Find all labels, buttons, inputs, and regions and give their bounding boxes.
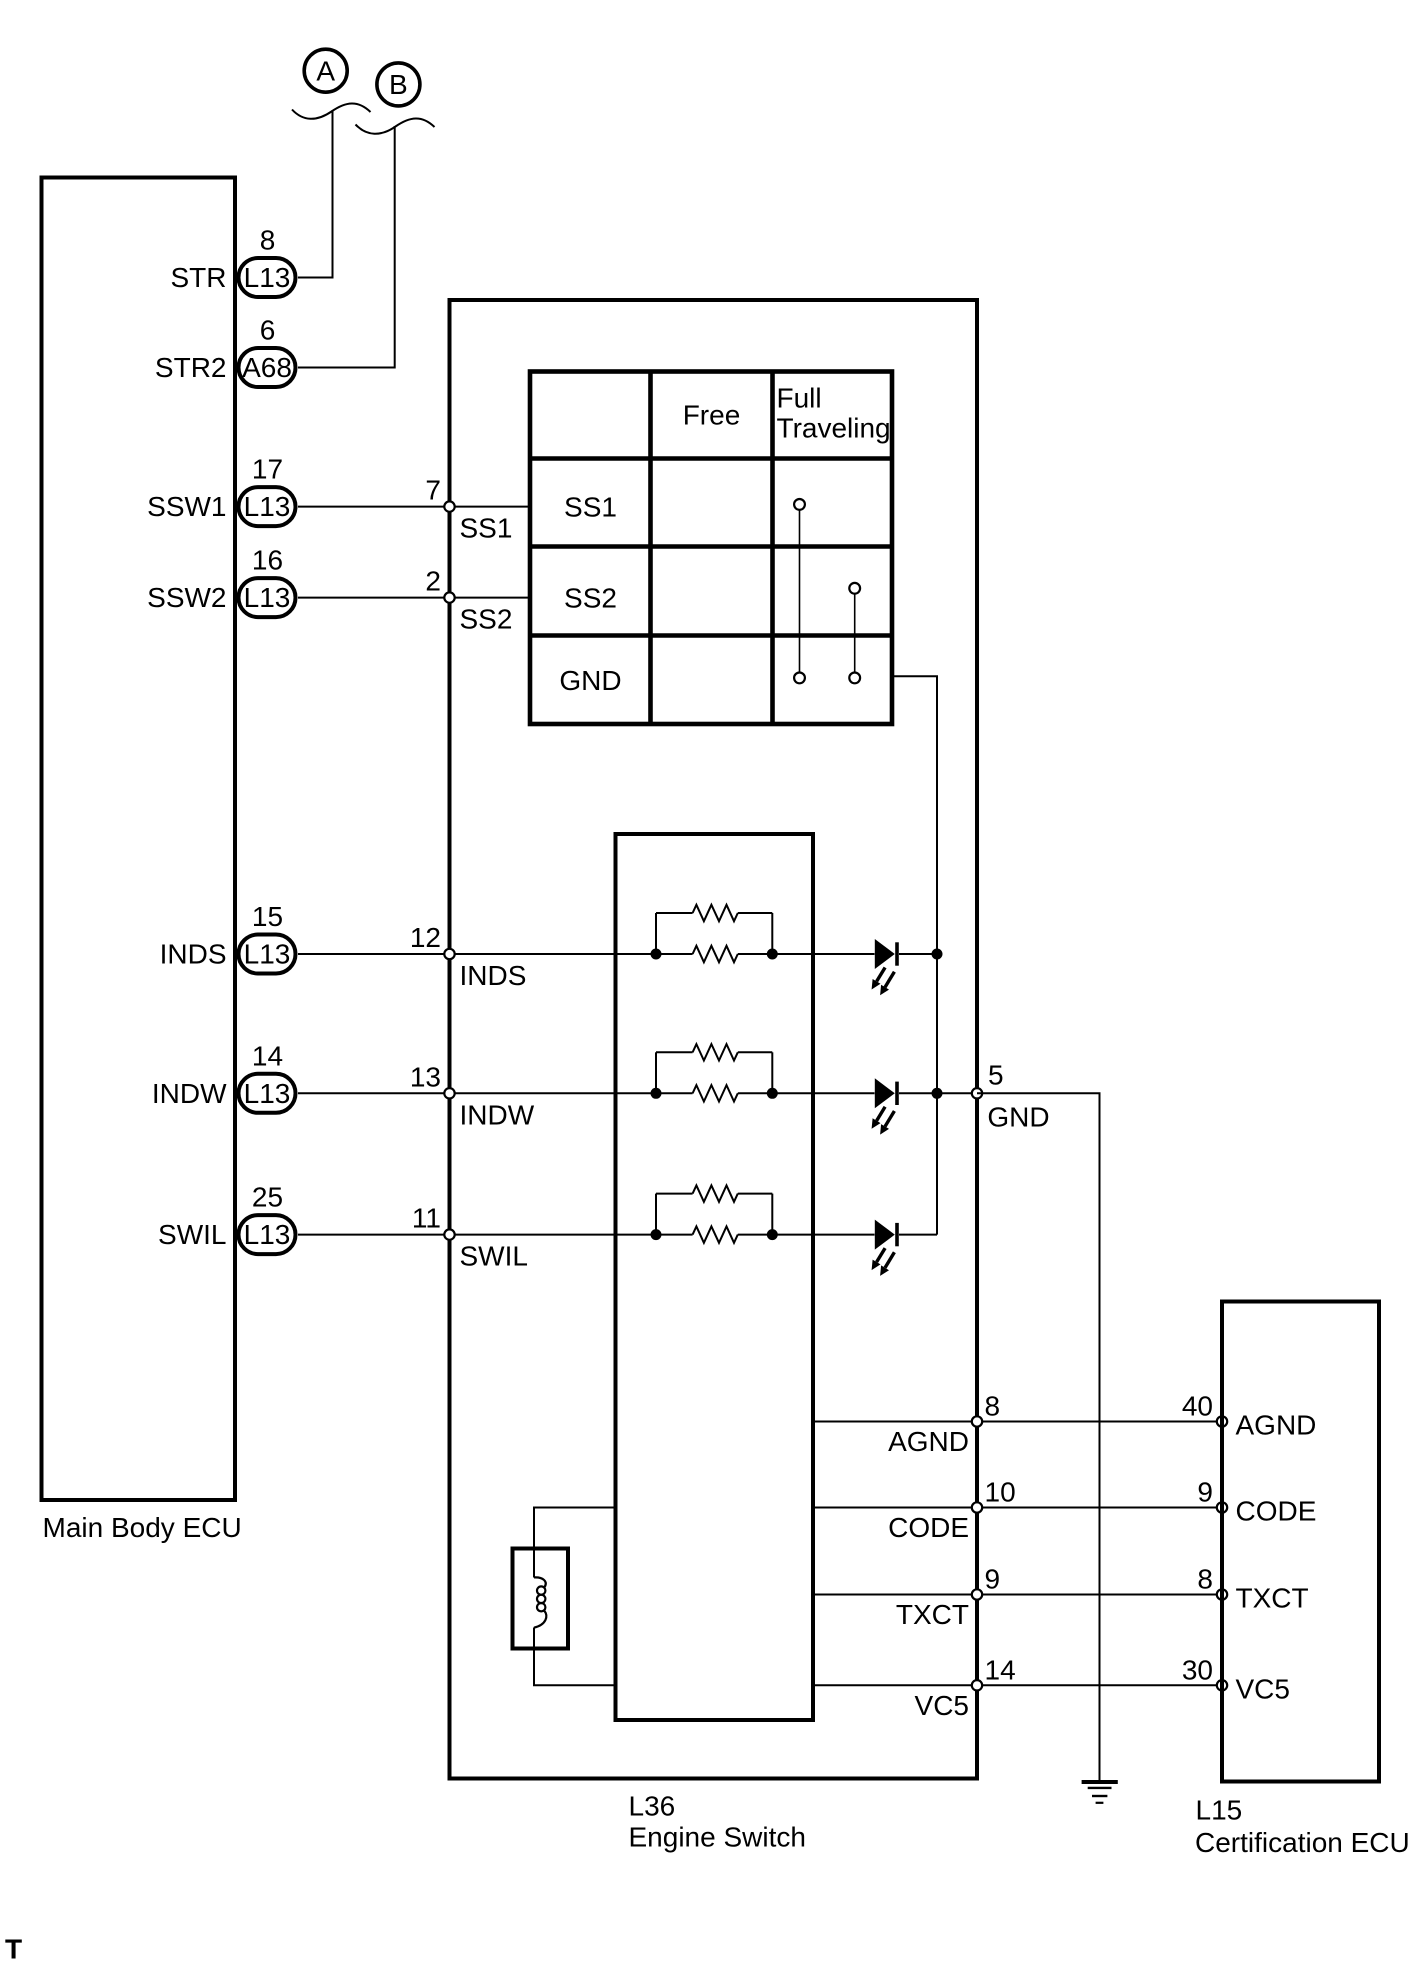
svg-text:TXCT: TXCT	[1236, 1583, 1309, 1614]
svg-text:L13: L13	[244, 1219, 291, 1250]
svg-text:A68: A68	[242, 352, 292, 383]
switch contact SS2 full-traveling	[849, 583, 860, 594]
wire INDW LED to bus	[899, 1092, 937, 1094]
svg-text:8: 8	[985, 1391, 1001, 1422]
svg-text:25: 25	[252, 1182, 283, 1213]
Main Body ECU box	[42, 178, 236, 1501]
svg-text:9: 9	[1197, 1477, 1213, 1508]
svg-text:SS1: SS1	[564, 492, 617, 523]
svg-text:14: 14	[985, 1654, 1016, 1685]
break symbol B	[356, 118, 435, 133]
ECU pin INDS connector L13	[160, 901, 296, 974]
svg-text:VC5: VC5	[1236, 1673, 1290, 1704]
wire coil top to block (CODE)	[534, 1508, 616, 1578]
node INDS pin 12 on L36	[410, 922, 527, 991]
svg-text:8: 8	[260, 225, 276, 256]
break symbol A	[292, 103, 371, 118]
node TXCT pin 8 on L15	[1197, 1564, 1308, 1614]
wire GND to earth	[977, 1093, 1100, 1781]
LED INDW	[872, 1078, 897, 1134]
wire INDW row to LED	[738, 1092, 875, 1094]
svg-text:9: 9	[985, 1564, 1001, 1595]
ground symbol	[1082, 1782, 1118, 1803]
junction dot INDS left	[651, 949, 662, 960]
svg-text:L36: L36	[629, 1791, 676, 1822]
node CODE pin 10 on L36	[888, 1477, 1016, 1544]
junction dot INDW left	[651, 1088, 662, 1099]
wire INDS row to LED	[738, 953, 875, 955]
svg-text:2: 2	[425, 566, 441, 597]
svg-text:SWIL: SWIL	[158, 1219, 226, 1250]
svg-text:17: 17	[252, 454, 283, 485]
wire CODE	[813, 1507, 1222, 1509]
junction dot bus INDS	[932, 949, 943, 960]
svg-text:Free: Free	[683, 400, 741, 431]
svg-text:Certification ECU: Certification ECU	[1195, 1827, 1410, 1858]
LED SWIL	[872, 1220, 897, 1276]
svg-text:8: 8	[1197, 1564, 1213, 1595]
junction dot INDW right	[767, 1088, 778, 1099]
resistor SWIL lower	[693, 1226, 738, 1242]
wire SSW2 to SS2	[298, 597, 530, 599]
switch state table	[530, 372, 892, 725]
svg-text:6: 6	[260, 315, 276, 346]
svg-text:Full: Full	[777, 383, 822, 414]
junction dot SWIL right	[767, 1229, 778, 1240]
node GND pin 5 on L36	[972, 1059, 1050, 1132]
wire INDW to GND node	[937, 1092, 977, 1094]
resistor INDW lower	[693, 1085, 738, 1101]
ECU pin SSW2 connector L13	[147, 545, 295, 618]
wire SWIL LED to bus	[899, 1234, 937, 1236]
svg-text:A: A	[316, 55, 335, 86]
node CODE pin 9 on L15	[1197, 1477, 1316, 1527]
svg-text:10: 10	[985, 1477, 1016, 1508]
junction dot SWIL left	[651, 1229, 662, 1240]
node SS1 pin 7 on L36	[425, 475, 512, 544]
key cylinder box	[513, 1549, 569, 1649]
node VC5 pin 30 on L15	[1182, 1654, 1290, 1704]
resistor INDS upper (parallel)	[656, 905, 772, 954]
node TXCT pin 9 on L36	[896, 1564, 1000, 1631]
svg-text:INDS: INDS	[460, 960, 527, 991]
junction dot bus INDW	[932, 1088, 943, 1099]
svg-text:GND: GND	[987, 1101, 1049, 1132]
L36 Engine Switch box	[450, 300, 978, 1779]
wire SSW1 to SS1	[298, 506, 530, 508]
svg-text:INDW: INDW	[152, 1078, 227, 1109]
connector A circle	[304, 49, 347, 92]
svg-text:16: 16	[252, 545, 283, 576]
svg-text:SS2: SS2	[460, 604, 513, 635]
node SWIL pin 11 on L36	[412, 1203, 528, 1272]
wire STR to A	[298, 110, 333, 278]
engine switch internal block	[616, 834, 814, 1720]
wire STR2 to B	[298, 126, 395, 368]
switch contact GND full-traveling right	[849, 673, 860, 684]
svg-text:30: 30	[1182, 1654, 1213, 1685]
svg-text:L13: L13	[244, 582, 291, 613]
svg-text:B: B	[389, 69, 408, 100]
wire SWIL row	[298, 1234, 693, 1236]
svg-text:SWIL: SWIL	[460, 1241, 528, 1272]
wire table GND output to bus	[892, 676, 937, 1234]
svg-text:Main Body ECU: Main Body ECU	[43, 1512, 242, 1543]
contact link SS2-GND	[854, 594, 856, 671]
svg-text:Traveling: Traveling	[777, 413, 891, 444]
node VC5 pin 14 on L36	[915, 1654, 1016, 1721]
node AGND pin 40 on L15	[1182, 1391, 1317, 1441]
svg-text:INDW: INDW	[460, 1099, 535, 1130]
wire VC5	[813, 1684, 1222, 1686]
wire INDS LED to bus	[899, 953, 937, 955]
connector B circle	[377, 63, 420, 106]
svg-text:INDS: INDS	[160, 939, 227, 970]
svg-text:L13: L13	[244, 939, 291, 970]
svg-text:TXCT: TXCT	[896, 1599, 969, 1630]
svg-text:Engine Switch: Engine Switch	[629, 1822, 806, 1853]
switch contact SS1 full-traveling	[794, 499, 805, 510]
svg-text:VC5: VC5	[915, 1690, 969, 1721]
svg-text:L13: L13	[244, 262, 291, 293]
wire coil bottom to block (VC5)	[534, 1628, 616, 1686]
svg-text:GND: GND	[559, 665, 621, 696]
wire INDS row	[298, 953, 693, 955]
svg-text:CODE: CODE	[1236, 1496, 1317, 1527]
wire INDW row	[298, 1092, 693, 1094]
svg-text:AGND: AGND	[888, 1426, 969, 1457]
svg-text:AGND: AGND	[1236, 1410, 1317, 1441]
svg-text:15: 15	[252, 901, 283, 932]
svg-text:12: 12	[410, 922, 441, 953]
svg-text:L13: L13	[244, 1078, 291, 1109]
svg-text:13: 13	[410, 1061, 441, 1092]
svg-text:40: 40	[1182, 1391, 1213, 1422]
L15 Certification ECU box	[1222, 1302, 1379, 1782]
svg-text:SS2: SS2	[564, 583, 617, 614]
ECU pin INDW connector L13	[152, 1040, 296, 1113]
svg-text:5: 5	[988, 1059, 1004, 1090]
svg-text:7: 7	[425, 475, 441, 506]
table header Full Traveling	[777, 383, 891, 444]
transponder coil	[534, 1577, 546, 1627]
resistor SWIL upper (parallel)	[656, 1185, 772, 1234]
svg-text:L15: L15	[1196, 1795, 1243, 1826]
contact link SS1-GND	[799, 511, 801, 672]
ECU pin STR connector L13	[171, 225, 296, 298]
ECU pin SWIL connector L13	[158, 1182, 295, 1255]
svg-text:SSW1: SSW1	[147, 491, 226, 522]
node INDW pin 13 on L36	[410, 1061, 535, 1130]
svg-text:L13: L13	[244, 491, 291, 522]
svg-text:STR: STR	[171, 262, 227, 293]
svg-text:14: 14	[252, 1040, 283, 1071]
LED INDS	[872, 939, 897, 995]
svg-text:T: T	[5, 1934, 22, 1963]
wire SWIL row to LED	[738, 1234, 875, 1236]
resistor INDW upper (parallel)	[656, 1044, 772, 1093]
svg-text:SS1: SS1	[460, 513, 513, 544]
node AGND pin 8 on L36	[888, 1391, 1000, 1458]
wire AGND	[813, 1421, 1222, 1423]
junction dot INDS right	[767, 949, 778, 960]
ECU pin STR2 connector A68	[155, 315, 296, 388]
node SS2 pin 2 on L36	[425, 566, 512, 635]
wire TXCT	[813, 1594, 1222, 1596]
svg-text:CODE: CODE	[888, 1512, 969, 1543]
svg-text:SSW2: SSW2	[147, 582, 226, 613]
switch contact GND full-traveling left	[794, 673, 805, 684]
svg-text:11: 11	[412, 1203, 441, 1234]
ECU pin SSW1 connector L13	[147, 454, 295, 526]
resistor INDS lower	[693, 946, 738, 962]
svg-text:STR2: STR2	[155, 352, 227, 383]
